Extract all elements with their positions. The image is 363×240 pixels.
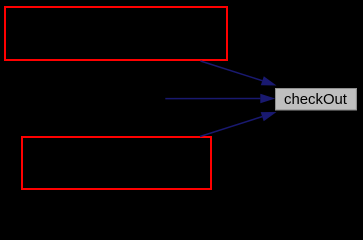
node checkOut (current node, grey fill): [275, 88, 357, 110]
edge wire: bottom caller to checkOut: [200, 117, 262, 137]
svg-text:checkOut: checkOut: [284, 92, 348, 108]
node checkOut border (dark inset): [276, 89, 357, 110]
edge wire: middle caller (hidden node) to checkOut: [165, 98, 260, 100]
caller node box bottom (red, truncated): [22, 137, 211, 189]
arrowhead: bottom edge: [261, 112, 277, 121]
caller node box top (red, truncated): [5, 7, 227, 60]
arrowhead: top edge: [261, 76, 277, 85]
arrowhead: middle edge: [260, 94, 275, 104]
edge wire: top caller to checkOut: [201, 61, 263, 81]
